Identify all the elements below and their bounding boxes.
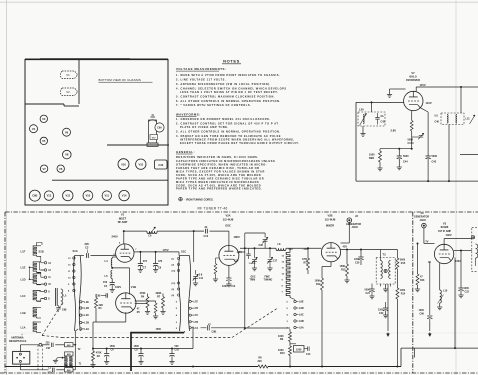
svg-text:1/2-6U8: 1/2-6U8	[325, 217, 336, 221]
svg-text:470: 470	[143, 260, 148, 263]
svg-text:(16): (16)	[172, 271, 176, 273]
svg-text:C22: C22	[379, 312, 384, 315]
svg-text:MIXER: MIXER	[326, 223, 334, 227]
svg-text:150: 150	[103, 281, 108, 284]
capacitor C3 220	[85, 242, 113, 258]
svg-text:L7A: L7A	[194, 327, 199, 330]
svg-text:V5: V5	[42, 139, 46, 143]
svg-text:L9C: L9C	[299, 314, 304, 317]
svg-text:180V: 180V	[234, 235, 240, 239]
svg-text:C10: C10	[175, 349, 180, 352]
jack J3 GENERATOR JACK	[414, 211, 435, 244]
capacitor C44 5000	[397, 149, 409, 170]
resistor R16 47K	[415, 243, 425, 292]
svg-text:C9B: C9B	[212, 331, 217, 334]
transformer T3	[376, 250, 395, 292]
svg-text:NOTES: NOTES	[223, 59, 240, 64]
resistor R9B 1000	[369, 149, 383, 171]
svg-text:L1C: L1C	[21, 294, 26, 298]
svg-text:WAVEFORMS:: WAVEFORMS:	[176, 112, 201, 116]
svg-text:175V: 175V	[163, 248, 169, 252]
svg-text:L20: L20	[359, 108, 364, 112]
svg-text:3. ANTENNA DISCONNECTED (SW IN: 3. ANTENNA DISCONNECTED (SW IN LOCAL POS…	[176, 82, 271, 86]
svg-text:MICA TYPES, EXCEPT FOR VALUES: MICA TYPES, EXCEPT FOR VALUES SHOWN IN S…	[176, 170, 265, 174]
wire V1A grid from C3	[112, 255, 116, 257]
svg-text:R15: R15	[401, 262, 406, 265]
resistor R14 1000	[396, 285, 406, 368]
svg-text:V2: V2	[66, 90, 70, 94]
resistor R13 150K	[340, 250, 350, 283]
resistor R2 4700	[90, 349, 101, 368]
trimmer capacitor C100	[408, 133, 424, 145]
resistor R9 1000	[278, 329, 292, 342]
svg-text:INTERFERENCE FROM SCOPE WHEN O: INTERFERENCE FROM SCOPE WHEN OBSERVING A…	[180, 138, 295, 142]
wire left lower rail	[92, 322, 193, 350]
hook at L1F top	[37, 243, 43, 246]
label V2A 1/2-6U8 OSC	[223, 214, 234, 228]
gang dashed link	[42, 304, 277, 338]
svg-text:240V: 240V	[112, 235, 118, 239]
svg-text:3. ALL OTHER CONTROLS IN NORMA: 3. ALL OTHER CONTROLS IN NORMAL OPERATIN…	[176, 130, 281, 134]
svg-text:L1F: L1F	[21, 249, 26, 253]
resistor R5 47	[137, 301, 158, 319]
coil L10 cathode	[437, 263, 448, 310]
capacitor C20 1000	[354, 250, 364, 266]
svg-text:R16: R16	[420, 279, 425, 282]
svg-text:L7B: L7B	[194, 321, 199, 324]
svg-text:C11: C11	[199, 277, 204, 280]
center tap ground	[53, 357, 65, 363]
capacitor C15	[234, 248, 251, 262]
tube tag V1	[61, 71, 78, 79]
tube V3	[425, 239, 472, 264]
svg-text:(1): (1)	[172, 259, 175, 261]
coil L5 with core and C98	[56, 288, 67, 312]
capacitor C9 470	[153, 252, 163, 272]
svg-text:V12: V12	[65, 194, 70, 198]
svg-text:C97: C97	[46, 347, 51, 350]
svg-text:C21: C21	[366, 292, 371, 295]
svg-text:500: 500	[175, 345, 180, 348]
switch S1C lower contacts L7E-L7A	[176, 300, 199, 330]
svg-text:V13: V13	[47, 194, 52, 198]
svg-text:110V: 110V	[426, 101, 432, 105]
svg-text:C15: C15	[234, 260, 239, 263]
switch S1C wafer	[172, 249, 191, 331]
svg-text:V4: V4	[32, 127, 36, 131]
svg-text:C10: C10	[204, 235, 209, 238]
wire V1B cathode circuit	[96, 303, 148, 322]
wire V1B plate riser	[135, 301, 156, 313]
electrolytic capacitor C9A side view	[107, 115, 169, 146]
socket V3	[40, 115, 47, 122]
svg-text:L2E: L2E	[84, 301, 89, 304]
svg-text:V1B: V1B	[131, 285, 136, 289]
coil L1C	[21, 291, 42, 302]
coil L1D	[21, 274, 42, 285]
label V1 6BZ7 RF AMP	[118, 213, 128, 224]
resistor R1 22K	[95, 294, 104, 310]
svg-text:6A: 6A	[381, 115, 384, 118]
svg-text:R14: R14	[401, 293, 406, 296]
svg-text:L2B: L2B	[84, 322, 89, 325]
svg-text:C98: C98	[62, 309, 67, 312]
trimmer C11 2-8	[193, 270, 204, 286]
label V3 6CB6 1ST IF AMP	[438, 221, 452, 237]
svg-text:L1D: L1D	[21, 277, 26, 281]
trimmer C96	[244, 233, 268, 249]
svg-text:- IRON TUNING CORES.: - IRON TUNING CORES.	[185, 197, 214, 201]
socket V5	[40, 137, 47, 144]
wire antenna feed	[80, 255, 84, 257]
svg-text:LESS THAN 1 VOLT NOISE AT PIN: LESS THAN 1 VOLT NOISE AT PIN NO 1 OF TE…	[180, 90, 278, 94]
svg-text:V1: V1	[66, 73, 70, 77]
svg-text:6AL5: 6AL5	[409, 75, 417, 79]
svg-text:220: 220	[46, 341, 51, 344]
resistor 680 bottom	[65, 345, 76, 372]
tube V2A	[219, 231, 240, 265]
svg-text:C96: C96	[420, 313, 425, 316]
svg-text:L2A: L2A	[84, 328, 89, 331]
svg-text:L1B: L1B	[21, 311, 26, 315]
wire oscillator tank rail	[236, 247, 321, 254]
svg-text:470K: 470K	[140, 292, 146, 295]
svg-text:R10: R10	[280, 352, 285, 355]
wire B+ return box right	[401, 348, 478, 366]
svg-text:V16: V16	[121, 162, 126, 166]
resistor V2A cathode	[213, 258, 219, 282]
capacitor C16 1000	[222, 265, 236, 288]
svg-text:S1A: S1A	[73, 249, 78, 253]
svg-text:R13: R13	[341, 269, 346, 272]
trimmer C19 OSC TRIM	[249, 248, 258, 282]
svg-text:OTHERWISE SPECIFIED, WHEN INDI: OTHERWISE SPECIFIED, WHEN INDICATED IN M…	[176, 163, 267, 167]
svg-text:C43: C43	[381, 121, 386, 124]
svg-text:-2.5V: -2.5V	[236, 251, 242, 254]
svg-text:C20: C20	[355, 262, 360, 265]
oscillator coil L3 stack	[282, 248, 291, 297]
socket V11	[102, 191, 111, 200]
wire L1E L1D common	[29, 267, 33, 281]
resistor R12 100K	[315, 262, 332, 368]
svg-text:6CB6: 6CB6	[441, 225, 449, 229]
svg-text:5000: 5000	[403, 155, 409, 158]
svg-text:CAPACITORS INDICATED IN MICROM: CAPACITORS INDICATED IN MICROMICROFARADS…	[176, 159, 275, 163]
capacitor C22 1500	[378, 302, 388, 318]
label V7 6AL5 FM DRIVER	[406, 71, 420, 82]
capacitor C97 220 series	[46, 341, 65, 350]
svg-text:OSC: OSC	[225, 223, 231, 227]
title BOTTOM VIEW OF CHASSIS	[99, 78, 153, 82]
svg-text:V6: V6	[59, 167, 63, 171]
antenna receptacle J1 box	[13, 351, 30, 364]
svg-text:L9B: L9B	[299, 320, 304, 323]
svg-text:2.8V: 2.8V	[391, 129, 397, 133]
svg-text:220: 220	[48, 371, 53, 374]
notes text block	[176, 59, 299, 191]
tube V7	[404, 87, 423, 111]
svg-text:1500: 1500	[156, 328, 162, 331]
svg-text:JACK: JACK	[420, 219, 427, 222]
capacitor C10b 500	[169, 345, 179, 364]
svg-text:C39: C39	[158, 163, 163, 167]
svg-text:TUNING: TUNING	[264, 280, 273, 282]
transformer T2	[65, 348, 82, 362]
svg-text:5. CONTRAST CONTROL MAXIMUM CL: 5. CONTRAST CONTROL MAXIMUM CLOCKWISE PO…	[176, 95, 275, 99]
capacitor C23 1000	[455, 251, 470, 298]
svg-text:L7D: L7D	[194, 307, 199, 310]
transformer T4 partial at edge	[472, 228, 478, 272]
capacitor C99	[96, 293, 108, 297]
svg-text:162V: 162V	[115, 285, 121, 289]
svg-text:42V: 42V	[343, 245, 348, 249]
resistor R15 5600	[396, 250, 406, 286]
socket V4	[30, 125, 38, 133]
wire V2B plate rail 42V	[341, 245, 398, 251]
transformer T1	[65, 363, 82, 368]
svg-text:CODE, SUCH AS 4T.005, WHICH AR: CODE, SUCH AS 4T.005, WHICH ARE THE MOLD…	[176, 173, 261, 177]
wire B+ top bus	[112, 230, 194, 244]
title RF TUNER TT-46	[198, 206, 228, 210]
svg-text:FARADS THEY ARE CERAMIC DISC,: FARADS THEY ARE CERAMIC DISC, TUBULAR OR	[176, 166, 260, 170]
svg-text:L9E: L9E	[299, 301, 304, 304]
svg-text:R12: R12	[316, 283, 321, 286]
socket V10	[83, 191, 93, 201]
svg-text:L2C: L2C	[84, 314, 89, 317]
ground at V7 pin 1	[387, 89, 406, 97]
label 2.8V	[391, 129, 397, 133]
socket V16	[118, 159, 129, 170]
svg-text:510: 510	[289, 248, 294, 251]
svg-text:GENERAL:: GENERAL:	[176, 150, 195, 154]
svg-text:1500: 1500	[296, 348, 302, 351]
svg-text:PAPER TYPE AND PREFERRED WHERE: PAPER TYPE AND PREFERRED WHERE INDICATED…	[176, 186, 262, 190]
tube V2B	[303, 243, 341, 262]
svg-text:BOTTOM VIEW OF CHASSIS: BOTTOM VIEW OF CHASSIS	[99, 78, 141, 82]
sound take-off coil L21 box	[435, 87, 476, 182]
oscillator switch contacts	[287, 298, 304, 330]
svg-text:C45: C45	[432, 161, 437, 164]
svg-text:L1A: L1A	[21, 326, 26, 330]
tuner section dash-dot border	[0, 212, 478, 373]
svg-text:C14: C14	[306, 353, 311, 356]
svg-text:(15): (15)	[172, 283, 176, 285]
svg-text:2. LINE VOLTAGE 117 VOLTS.: 2. LINE VOLTAGE 117 VOLTS.	[176, 78, 226, 82]
wire V1A plate to right	[134, 248, 179, 253]
capacitor C7 470	[138, 252, 148, 272]
socket V6	[57, 165, 64, 172]
svg-text:L21: L21	[466, 118, 471, 121]
socket V9	[63, 128, 71, 136]
wire 115V plate supply	[416, 83, 478, 88]
label V2B 1/2-6U8 MIXER	[325, 214, 336, 228]
resistor R11 4700	[302, 247, 310, 274]
svg-text:115V: 115V	[420, 83, 426, 87]
switch S1A lower contacts L2E-L2A	[80, 301, 90, 331]
svg-text:L1E: L1E	[21, 265, 26, 269]
socket V15	[136, 159, 146, 169]
wire bottom bus	[5, 357, 401, 369]
connection arrow right	[428, 322, 431, 337]
svg-text:OSC: OSC	[251, 277, 256, 279]
svg-text:V7: V7	[42, 167, 46, 171]
svg-text:L7C: L7C	[194, 314, 199, 317]
svg-text:RESISTORS INDICATED IN OHMS, K: RESISTORS INDICATED IN OHMS, K=1000 OHMS…	[176, 155, 259, 159]
chassis bottom-view outline	[25, 59, 168, 205]
switch S1B contacts	[39, 249, 52, 300]
svg-text:ANTENNA: ANTENNA	[11, 335, 24, 339]
svg-text:V14: V14	[122, 194, 127, 198]
svg-text:V9: V9	[65, 130, 69, 134]
jack J2 GENERATOR JACK	[341, 214, 362, 243]
wire S1C bottom lead	[184, 331, 186, 333]
svg-text:RF TUNER TT-46: RF TUNER TT-46	[198, 206, 228, 210]
svg-text:C44: C44	[403, 161, 408, 164]
svg-text:V8: V8	[65, 153, 69, 157]
svg-text:JACK: JACK	[352, 226, 359, 229]
wire S1C top feed	[179, 230, 195, 262]
capacitor C8 1500	[134, 345, 144, 365]
socket V13	[44, 191, 53, 200]
svg-text:C46: C46	[435, 121, 440, 124]
svg-text:L9A: L9A	[299, 327, 304, 330]
resistor R4 470K	[140, 292, 151, 314]
capacitor C45 5000	[421, 108, 438, 182]
coil L4	[105, 257, 117, 269]
wire antenna top lead	[20, 343, 49, 351]
capacitor C96 1000	[419, 262, 433, 322]
svg-text:390K: 390K	[156, 292, 162, 295]
resistor R10 1000	[278, 342, 292, 368]
resistor 680 top	[65, 343, 76, 347]
svg-text:-7V: -7V	[425, 241, 429, 244]
socket V12	[63, 190, 73, 200]
svg-text:1500: 1500	[134, 345, 140, 348]
label ANTENNA RECEPTACLE	[9, 334, 27, 343]
svg-text:C17: C17	[273, 261, 278, 263]
svg-text:C9A: C9A	[157, 127, 162, 130]
svg-text:V11: V11	[105, 194, 110, 198]
svg-text:S1C: S1C	[181, 249, 186, 253]
capacitor C6 1500	[104, 345, 115, 364]
heavy shield bus	[131, 328, 184, 371]
coil L1B	[21, 308, 42, 319]
svg-text:L9D: L9D	[299, 307, 304, 310]
svg-text:1000: 1000	[354, 258, 360, 261]
svg-text:(2): (2)	[172, 265, 175, 267]
svg-text:C100: C100	[408, 142, 415, 145]
svg-text:220: 220	[85, 242, 90, 246]
svg-text:L2D: L2D	[84, 307, 89, 310]
svg-text:C16: C16	[231, 285, 236, 288]
svg-text:R9B: R9B	[369, 157, 374, 160]
svg-text:C9B: C9B	[32, 194, 37, 198]
capacitor C14 1500 molded	[290, 344, 311, 356]
svg-text:VOLTAGE MEASUREMENTS:: VOLTAGE MEASUREMENTS:	[176, 67, 226, 71]
trimmer C17 FINE TUNING	[264, 248, 278, 282]
svg-text:7. * VARIES WITH SETTINGS OF C: 7. * VARIES WITH SETTINGS OF CONTROLS.	[176, 103, 251, 107]
svg-text:S1B: S1B	[39, 249, 44, 253]
wire L4 to V1B	[112, 268, 129, 295]
svg-text:4. CHANNEL SELECTOR SWITCH ON: 4. CHANNEL SELECTOR SWITCH ON CHANNEL WH…	[176, 86, 287, 90]
svg-text:4. 6BQ6GT HO GEN TUBE REMOVED: 4. 6BQ6GT HO GEN TUBE REMOVED TO ELIMINA…	[176, 134, 281, 138]
svg-text:L7E: L7E	[194, 300, 199, 303]
svg-text:V10: V10	[86, 194, 91, 198]
wire cathode rail	[380, 148, 412, 150]
coil L1A	[21, 322, 42, 333]
svg-text:V3: V3	[42, 117, 46, 121]
label 110V	[426, 101, 432, 105]
coil L6 peaking	[147, 227, 157, 238]
capacitor C9B 47	[201, 323, 245, 333]
svg-text:5000: 5000	[432, 155, 438, 158]
svg-text:C3: C3	[85, 246, 89, 250]
capacitor C10 22 series	[194, 226, 229, 238]
svg-text:2. CONTRAST CONTROL SET FOR SI: 2. CONTRAST CONTROL SET FOR SIGNAL OF 45…	[176, 121, 279, 125]
svg-text:6. ALL OTHER CONTROLS IN NORMA: 6. ALL OTHER CONTROLS IN NORMAL OPERATIN…	[176, 99, 281, 103]
tube V1A	[114, 241, 138, 262]
shield dashes near antenna	[38, 345, 43, 371]
svg-text:1500: 1500	[110, 345, 116, 348]
svg-text:FINE: FINE	[265, 277, 271, 279]
capacitor C21 5000	[365, 284, 375, 299]
svg-text:1. OBSERVED ON DUMONT MODEL 24: 1. OBSERVED ON DUMONT MODEL 241 OSCILLOS…	[176, 117, 271, 121]
svg-text:(8): (8)	[172, 295, 175, 297]
svg-text:220: 220	[258, 360, 263, 363]
svg-text:130V: 130V	[455, 260, 461, 263]
svg-text:TRIM: TRIM	[250, 280, 256, 282]
socket V7	[40, 165, 47, 172]
svg-text:PLATE OF VIDEO AMP TUBE.: PLATE OF VIDEO AMP TUBE.	[180, 125, 229, 129]
iron tuning core legend	[179, 197, 214, 201]
svg-text:1.5-3.5: 1.5-3.5	[249, 263, 257, 265]
svg-text:C99: C99	[96, 295, 101, 298]
wire to next stage right	[460, 154, 478, 156]
coil L5	[105, 271, 113, 279]
tube V1B	[115, 285, 136, 313]
svg-text:1000: 1000	[419, 309, 425, 312]
capacitor C4 150	[103, 279, 115, 293]
resistor R7 390K	[156, 292, 166, 314]
capacitor C2 220 series	[48, 366, 65, 374]
socket V14	[119, 190, 129, 200]
coil L20 with trimmer C43	[358, 101, 386, 126]
capacitor C39 tag	[155, 160, 168, 169]
FM driver enclosure wire loop	[356, 102, 478, 181]
svg-text:1/2-6U8: 1/2-6U8	[223, 217, 234, 221]
svg-text:RF AMP: RF AMP	[118, 221, 128, 224]
svg-text:L10: L10	[443, 289, 448, 292]
wire V3 plate	[454, 250, 472, 350]
connection arrow left	[387, 284, 390, 337]
svg-text:6BZ7: 6BZ7	[119, 216, 127, 220]
wire antenna riser	[74, 329, 78, 346]
svg-text:1000: 1000	[222, 285, 228, 288]
svg-text:C96: C96	[259, 244, 264, 247]
tube tag V2	[61, 88, 78, 96]
svg-text:1ST IF AMP: 1ST IF AMP	[438, 230, 451, 233]
svg-text:1000: 1000	[464, 287, 470, 290]
socket V8	[63, 150, 72, 159]
svg-text:130V: 130V	[446, 233, 452, 237]
svg-text:PAPER TYPE AND ARE CERAMIC DIS: PAPER TYPE AND ARE CERAMIC DISC TUBULAR …	[176, 177, 264, 181]
svg-text:1. MADE WITH A VTVM FROM POINT: 1. MADE WITH A VTVM FROM POINT INDICATED…	[176, 73, 280, 77]
wire osc cathode to bus	[244, 248, 290, 329]
svg-text:EXCEPT THOSE FROM PHASE DET TH: EXCEPT THOSE FROM PHASE DET THROUGH HORI…	[180, 141, 299, 145]
svg-text:(9): (9)	[172, 289, 175, 291]
svg-text:RECEPTACLE: RECEPTACLE	[9, 339, 27, 343]
svg-text:R11: R11	[304, 261, 309, 264]
